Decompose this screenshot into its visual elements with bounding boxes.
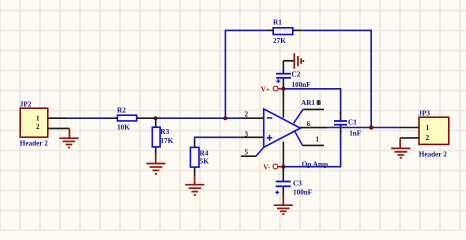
- plus mark: [275, 191, 279, 193]
- svg-text:C2: C2: [292, 70, 301, 78]
- svg-text:100nF: 100nF: [293, 189, 313, 197]
- svg-text:10K: 10K: [117, 123, 130, 131]
- capacitor C3 100nF: [275, 167, 312, 197]
- connector JP3: [418, 109, 448, 158]
- pin 6 output: [300, 127, 327, 129]
- svg-text:1: 1: [315, 136, 319, 144]
- pin 3: [241, 136, 264, 138]
- wire V+ node to C1 top: [283, 89, 340, 114]
- pin JP3.1: [399, 127, 419, 129]
- junction V- node: [281, 165, 285, 169]
- svg-text:Header 2: Header 2: [20, 140, 48, 148]
- svg-text:R2: R2: [117, 106, 126, 114]
- svg-text:R4: R4: [200, 149, 209, 157]
- ground at JP3 pin 2: [391, 138, 410, 158]
- svg-text:V+: V+: [261, 86, 270, 94]
- triangle body: [264, 109, 301, 147]
- pin 4 V-: [282, 142, 284, 167]
- pin JP2.2: [48, 127, 70, 129]
- svg-text:5K: 5K: [200, 158, 210, 166]
- wire op-amp output to JP3: [327, 127, 400, 129]
- plus symbol: [267, 137, 273, 139]
- plus mark: [276, 80, 280, 82]
- minus symbol: [267, 117, 273, 119]
- ground at C2 (rotated): [283, 53, 303, 69]
- svg-text:2: 2: [244, 110, 248, 118]
- svg-text:2: 2: [36, 123, 40, 131]
- pin 1: [295, 131, 303, 145]
- capacitor C1 1nF: [334, 112, 362, 137]
- wire JP2.1 to R2: [68, 117, 110, 119]
- svg-text:JP3: JP3: [418, 109, 430, 117]
- resistor R4 5K: [190, 140, 209, 176]
- wire node A to op-amp pin 2: [156, 117, 241, 119]
- junction V+ node: [281, 87, 285, 91]
- wire C1 bottom to V- rail: [283, 134, 340, 167]
- ground at R4: [185, 176, 204, 195]
- node B junction feedback: [223, 116, 227, 120]
- pin 5: [241, 155, 256, 157]
- svg-text:8: 8: [316, 99, 320, 107]
- svg-text:1: 1: [426, 124, 430, 132]
- connector JP2: [20, 100, 48, 147]
- ground at C3: [274, 197, 293, 215]
- power port V+: [261, 86, 284, 94]
- svg-text:27K: 27K: [273, 37, 286, 45]
- pin 2: [241, 117, 264, 119]
- resistor R1 27K: [266, 19, 302, 46]
- svg-text:1nF: 1nF: [349, 129, 362, 137]
- svg-text:C1: C1: [348, 118, 357, 126]
- resistor R3 17K: [152, 118, 173, 155]
- svg-text:AR1: AR1: [301, 99, 315, 107]
- svg-text:C3: C3: [293, 180, 302, 188]
- svg-text:1: 1: [36, 115, 40, 123]
- svg-text:6: 6: [307, 120, 311, 128]
- op-amp AR1: [241, 89, 328, 169]
- feedback wire up-left: [225, 30, 266, 118]
- pin 7 V+: [282, 89, 284, 118]
- svg-text:V-: V-: [263, 163, 271, 171]
- pin 8: [294, 109, 303, 123]
- resistor R2 10K: [110, 106, 156, 131]
- capacitor C2 100nF: [276, 61, 311, 89]
- svg-text:R3: R3: [160, 128, 169, 136]
- feedback wire right-down: [302, 30, 371, 127]
- wire R4 to op-amp pin 3: [195, 137, 241, 140]
- power port V-: [263, 163, 283, 171]
- pin JP3.2: [400, 137, 419, 139]
- svg-text:Header 2: Header 2: [419, 150, 447, 158]
- svg-text:2: 2: [426, 134, 430, 142]
- svg-text:3: 3: [244, 131, 248, 139]
- svg-text:100nF: 100nF: [292, 81, 312, 89]
- ground at JP2 pin 2: [59, 128, 78, 147]
- ground at R3: [146, 155, 165, 174]
- svg-text:R1: R1: [273, 19, 282, 27]
- svg-text:5: 5: [244, 148, 248, 156]
- node output junction: [369, 125, 373, 129]
- svg-text:17K: 17K: [160, 137, 173, 145]
- node A junction R2/R3: [154, 116, 158, 120]
- pin JP2.1: [48, 117, 68, 119]
- svg-text:JP2: JP2: [20, 100, 32, 108]
